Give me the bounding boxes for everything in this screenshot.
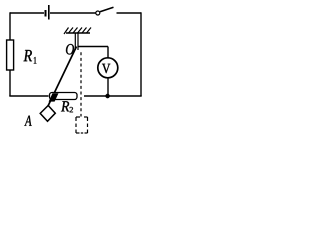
wire left side upper xyxy=(9,12,11,40)
rod OA xyxy=(48,47,77,107)
dashed plumb line xyxy=(80,52,82,116)
wire voltmeter bottom branch xyxy=(107,78,109,96)
wire switch to top-right corner xyxy=(117,12,142,14)
wire voltmeter top branch xyxy=(78,47,108,59)
label R2 xyxy=(61,101,69,111)
junction dot xyxy=(106,94,110,98)
resistor R1 xyxy=(7,40,14,70)
pivot bracket at O xyxy=(75,33,78,50)
wire left side lower xyxy=(9,70,11,96)
label R1 xyxy=(24,50,33,61)
ceiling hatching xyxy=(64,28,91,35)
weight block A (diamond) xyxy=(40,106,55,122)
wire bottom-left segment xyxy=(9,95,48,97)
switch xyxy=(96,7,114,15)
dashed rest-position box xyxy=(76,117,88,133)
label A xyxy=(24,116,31,126)
voltmeter xyxy=(98,58,118,78)
wire bottom-right segment xyxy=(84,95,142,97)
wire battery to switch xyxy=(50,12,96,14)
slider contact pad xyxy=(49,93,59,101)
battery cell xyxy=(46,5,49,20)
node O label xyxy=(66,44,74,55)
wire top-left segment xyxy=(10,12,44,14)
wire right side xyxy=(140,12,142,96)
resistance rod R2 xyxy=(50,93,78,100)
